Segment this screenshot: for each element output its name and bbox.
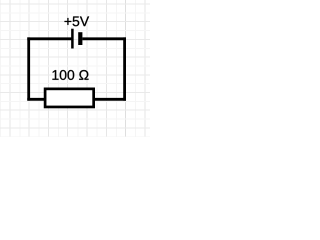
wire top-right horizontal (battery negative plate to top-right corner) xyxy=(82,37,126,40)
wire bottom-right lead (resistor right pin to bottom-right corner) xyxy=(94,98,126,101)
label +5V xyxy=(65,16,90,26)
wire right vertical (top-right corner to bottom-right corner) xyxy=(123,37,126,100)
battery V1 positive plate (long) xyxy=(71,29,74,49)
wire left vertical (top-left corner to bottom-left corner) xyxy=(27,37,30,100)
label 100 ohm xyxy=(52,70,88,80)
wire top-left horizontal (corner to battery positive plate) xyxy=(27,37,71,40)
battery V1 negative plate (short thick) xyxy=(78,32,82,45)
resistor R1 body (box) xyxy=(45,89,94,107)
wire bottom-left lead (bottom-left corner to resistor left pin) xyxy=(27,98,45,101)
